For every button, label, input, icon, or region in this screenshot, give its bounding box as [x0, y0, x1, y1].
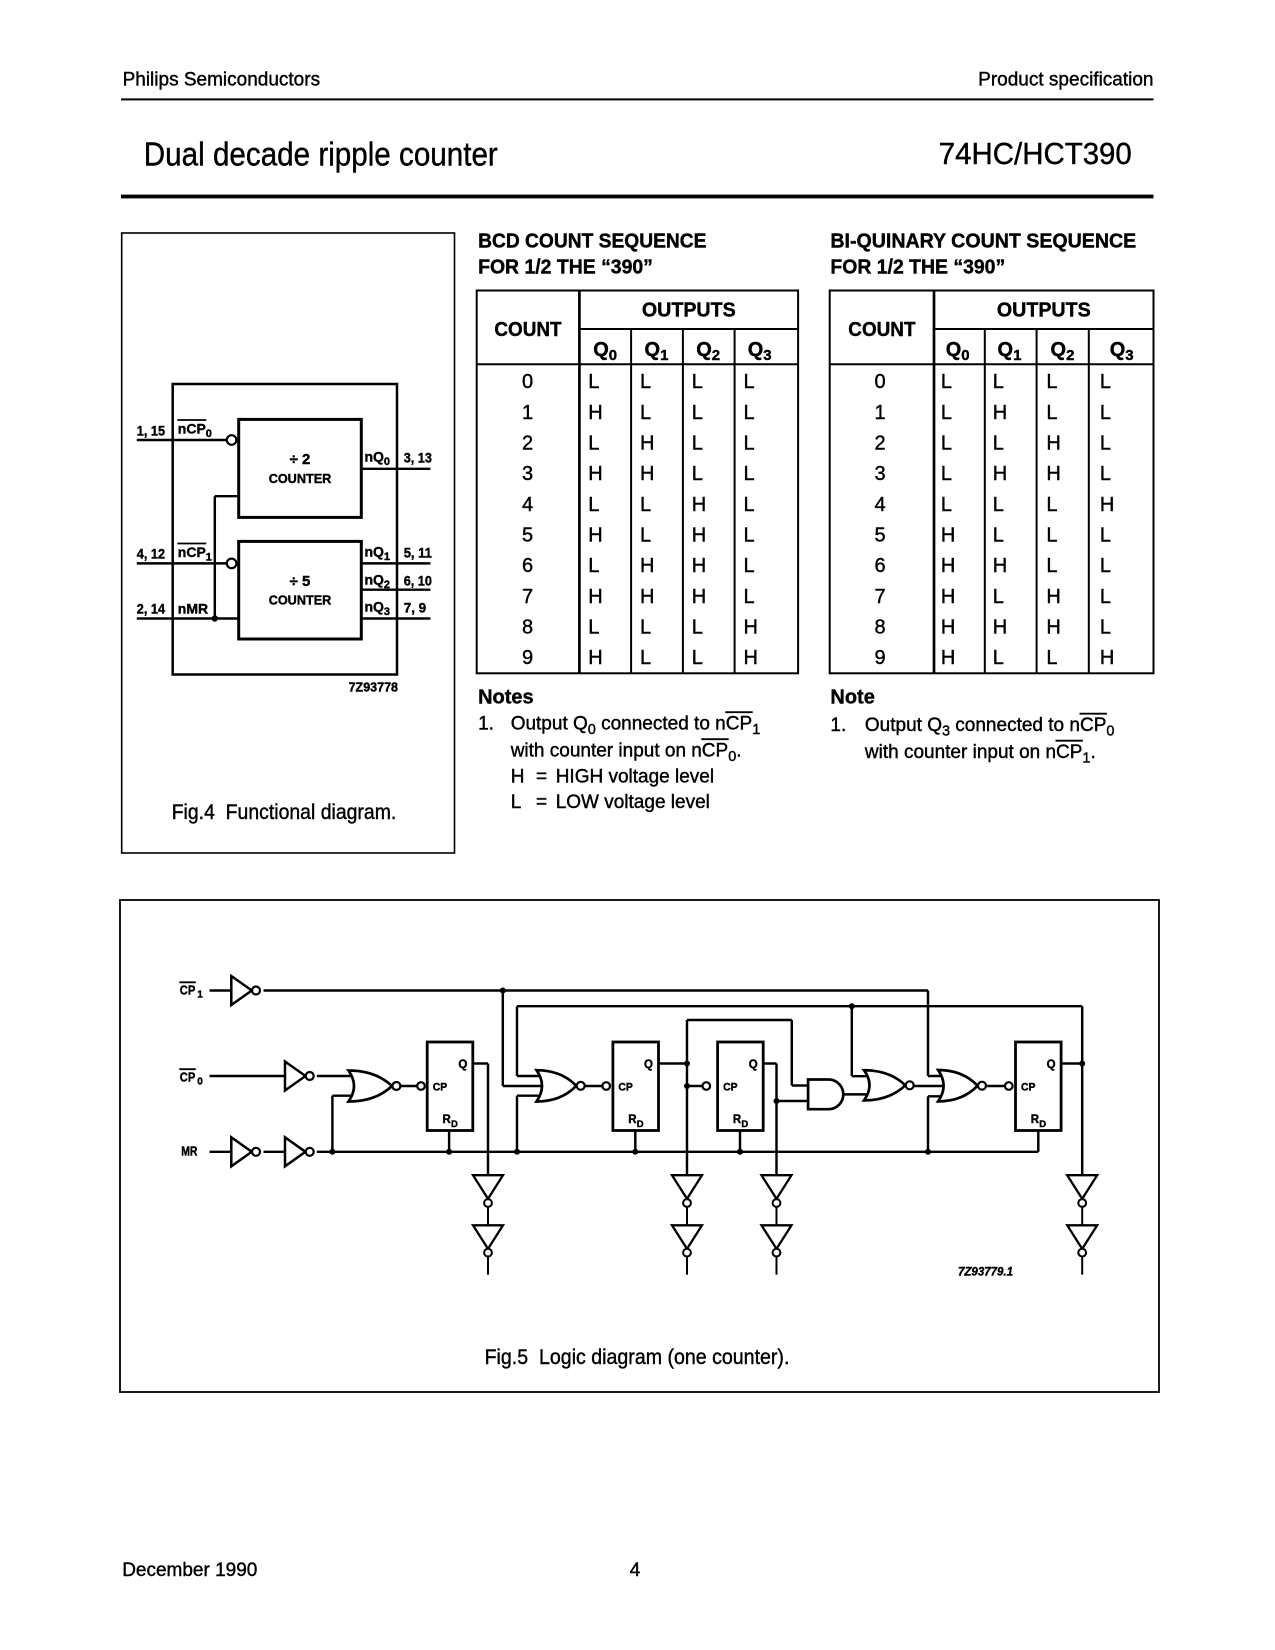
- svg-text:L: L: [993, 525, 1004, 547]
- svg-text:FOR 1/2 THE “390”: FOR 1/2 THE “390”: [830, 257, 1005, 279]
- svg-text:1, 15: 1, 15: [137, 423, 165, 439]
- svg-text:L: L: [941, 433, 952, 455]
- svg-text:H: H: [692, 555, 706, 577]
- svg-text:L: L: [993, 586, 1004, 608]
- svg-text:1: 1: [1013, 347, 1021, 364]
- svg-text:5, 11: 5, 11: [404, 545, 432, 561]
- svg-text:L: L: [588, 555, 599, 577]
- svg-text:1: 1: [660, 347, 668, 364]
- svg-text:L: L: [588, 371, 599, 393]
- svg-text:L: L: [640, 402, 651, 424]
- svg-text:L: L: [511, 792, 522, 813]
- svg-text:H: H: [993, 555, 1007, 577]
- svg-text:.: .: [736, 741, 741, 762]
- svg-text:0: 0: [588, 722, 596, 738]
- svg-text:6: 6: [874, 555, 885, 577]
- svg-text:L: L: [692, 433, 703, 455]
- svg-text:connected to n: connected to n: [955, 715, 1080, 736]
- svg-text:Q: Q: [749, 1059, 758, 1071]
- svg-text:2, 14: 2, 14: [137, 601, 165, 617]
- svg-text:H: H: [1100, 647, 1114, 669]
- svg-text:H: H: [640, 586, 654, 608]
- svg-text:H: H: [588, 463, 602, 485]
- svg-text:L: L: [993, 494, 1004, 516]
- svg-text:4: 4: [522, 494, 533, 516]
- svg-text:Q: Q: [1051, 339, 1067, 361]
- svg-text:BCD COUNT SEQUENCE: BCD COUNT SEQUENCE: [478, 231, 706, 253]
- svg-text:H: H: [640, 463, 654, 485]
- svg-text:CP: CP: [1080, 715, 1106, 736]
- svg-text:L: L: [941, 402, 952, 424]
- svg-text:nCP: nCP: [178, 421, 206, 437]
- svg-text:L: L: [1046, 525, 1057, 547]
- svg-text:5: 5: [522, 525, 533, 547]
- svg-text:connected to n: connected to n: [601, 714, 726, 735]
- svg-text:COUNTER: COUNTER: [269, 593, 332, 608]
- svg-text:H: H: [1046, 463, 1060, 485]
- svg-text:9: 9: [874, 647, 885, 669]
- svg-text:L: L: [640, 371, 651, 393]
- svg-text:D: D: [741, 1119, 748, 1130]
- svg-text:with counter input on n: with counter input on n: [510, 741, 702, 762]
- svg-text:Q: Q: [696, 339, 712, 361]
- svg-text:0: 0: [384, 456, 390, 468]
- svg-text:L: L: [1100, 433, 1111, 455]
- svg-text:3: 3: [763, 347, 771, 364]
- svg-text:L: L: [1100, 616, 1111, 638]
- svg-text:L: L: [588, 494, 599, 516]
- svg-text:2: 2: [522, 433, 533, 455]
- svg-text:CP: CP: [180, 984, 196, 998]
- svg-text:FOR 1/2 THE “390”: FOR 1/2 THE “390”: [478, 257, 653, 279]
- svg-text:L: L: [640, 616, 651, 638]
- svg-text:4: 4: [630, 1560, 641, 1581]
- svg-text:=: =: [536, 792, 547, 813]
- svg-text:H: H: [941, 647, 955, 669]
- svg-text:Dual decade ripple counter: Dual decade ripple counter: [144, 135, 498, 172]
- svg-text:Fig.4 Functional diagram.: Fig.4 Functional diagram.: [172, 801, 397, 824]
- svg-text:HIGH voltage level: HIGH voltage level: [556, 767, 714, 788]
- svg-text:CP: CP: [618, 1082, 633, 1094]
- svg-text:2: 2: [1066, 347, 1074, 364]
- svg-text:L: L: [1046, 555, 1057, 577]
- svg-text:3: 3: [942, 724, 950, 740]
- svg-text:0: 0: [206, 428, 212, 440]
- svg-text:L: L: [744, 494, 755, 516]
- svg-text:Fig.5 Logic diagram (one coun: Fig.5 Logic diagram (one counter).: [485, 1346, 790, 1369]
- svg-text:with counter input on n: with counter input on n: [864, 742, 1056, 763]
- svg-text:Q: Q: [458, 1059, 467, 1071]
- svg-text:L: L: [1100, 402, 1111, 424]
- svg-text:H: H: [1046, 586, 1060, 608]
- svg-text:H: H: [692, 494, 706, 516]
- svg-text:H: H: [993, 463, 1007, 485]
- svg-text:H: H: [588, 525, 602, 547]
- svg-text:L: L: [744, 555, 755, 577]
- svg-text:8: 8: [522, 616, 533, 638]
- svg-text:L: L: [993, 647, 1004, 669]
- svg-text:L: L: [588, 616, 599, 638]
- svg-text:1: 1: [874, 402, 885, 424]
- svg-text:December 1990: December 1990: [122, 1560, 257, 1581]
- svg-text:H: H: [588, 647, 602, 669]
- svg-text:Q: Q: [644, 1059, 653, 1071]
- svg-text:D: D: [451, 1119, 458, 1130]
- svg-text:9: 9: [522, 647, 533, 669]
- svg-text:nQ: nQ: [365, 449, 385, 465]
- svg-text:÷ 5: ÷ 5: [290, 573, 311, 590]
- svg-text:0: 0: [874, 371, 885, 393]
- svg-text:L: L: [1046, 402, 1057, 424]
- svg-text:=: =: [536, 767, 547, 788]
- svg-text:L: L: [1046, 647, 1057, 669]
- svg-text:L: L: [588, 433, 599, 455]
- svg-text:L: L: [744, 463, 755, 485]
- svg-text:2: 2: [384, 579, 390, 591]
- svg-text:74HC/HCT390: 74HC/HCT390: [939, 136, 1132, 171]
- svg-text:3: 3: [522, 463, 533, 485]
- svg-text:.: .: [1091, 742, 1096, 763]
- svg-text:7: 7: [522, 586, 533, 608]
- svg-text:Q: Q: [593, 339, 609, 361]
- svg-text:L: L: [692, 402, 703, 424]
- svg-text:D: D: [637, 1119, 644, 1130]
- svg-text:H: H: [1046, 433, 1060, 455]
- svg-text:Q: Q: [1110, 339, 1126, 361]
- svg-text:Q: Q: [748, 339, 764, 361]
- svg-text:L: L: [640, 525, 651, 547]
- svg-text:H: H: [993, 616, 1007, 638]
- svg-text:L: L: [744, 525, 755, 547]
- svg-text:2: 2: [874, 433, 885, 455]
- svg-text:H: H: [993, 402, 1007, 424]
- svg-text:Notes: Notes: [478, 687, 534, 709]
- svg-text:MR: MR: [181, 1145, 197, 1159]
- svg-text:1.: 1.: [830, 715, 846, 736]
- svg-text:1: 1: [752, 722, 760, 738]
- svg-text:Output Q: Output Q: [511, 714, 588, 735]
- svg-text:CP: CP: [1021, 1082, 1036, 1094]
- svg-text:L: L: [1046, 371, 1057, 393]
- svg-text:H: H: [744, 647, 758, 669]
- svg-text:Q: Q: [645, 339, 661, 361]
- svg-text:0: 0: [728, 749, 736, 765]
- svg-text:H: H: [692, 525, 706, 547]
- svg-text:3: 3: [384, 606, 390, 618]
- svg-text:7Z93779.1: 7Z93779.1: [958, 1267, 1013, 1279]
- svg-text:H: H: [640, 433, 654, 455]
- svg-text:L: L: [1046, 494, 1057, 516]
- svg-text:CP: CP: [702, 741, 728, 762]
- svg-text:1.: 1.: [478, 714, 494, 735]
- svg-text:1: 1: [197, 990, 203, 1001]
- svg-text:CP: CP: [433, 1082, 448, 1094]
- svg-text:7, 9: 7, 9: [404, 600, 427, 616]
- svg-text:L: L: [744, 433, 755, 455]
- svg-text:1: 1: [206, 552, 212, 564]
- svg-text:0: 0: [961, 347, 969, 364]
- svg-text:1: 1: [1082, 751, 1090, 767]
- svg-text:L: L: [1100, 463, 1111, 485]
- svg-text:Q: Q: [946, 339, 962, 361]
- svg-text:H: H: [511, 767, 525, 788]
- svg-text:L: L: [1100, 525, 1111, 547]
- svg-text:COUNT: COUNT: [848, 319, 915, 341]
- svg-text:H: H: [640, 555, 654, 577]
- svg-text:CP: CP: [180, 1071, 196, 1085]
- svg-text:L: L: [1100, 371, 1111, 393]
- svg-text:L: L: [692, 371, 703, 393]
- svg-text:8: 8: [874, 616, 885, 638]
- svg-text:L: L: [640, 647, 651, 669]
- svg-text:L: L: [941, 494, 952, 516]
- svg-text:3: 3: [1125, 347, 1133, 364]
- svg-text:Product specification: Product specification: [978, 69, 1153, 90]
- svg-text:COUNT: COUNT: [494, 319, 561, 341]
- svg-text:4: 4: [874, 494, 885, 516]
- svg-text:0: 0: [522, 371, 533, 393]
- svg-text:OUTPUTS: OUTPUTS: [997, 300, 1091, 322]
- svg-text:Q: Q: [1047, 1059, 1056, 1071]
- svg-text:Philips Semiconductors: Philips Semiconductors: [123, 69, 320, 90]
- svg-text:Q: Q: [998, 339, 1014, 361]
- svg-text:0: 0: [197, 1077, 203, 1088]
- svg-text:Note: Note: [830, 687, 874, 709]
- svg-text:5: 5: [874, 525, 885, 547]
- svg-text:L: L: [941, 371, 952, 393]
- svg-text:BI-QUINARY COUNT SEQUENCE: BI-QUINARY COUNT SEQUENCE: [830, 231, 1136, 253]
- svg-text:nQ: nQ: [365, 572, 385, 588]
- svg-text:nQ: nQ: [365, 599, 385, 615]
- svg-text:L: L: [1100, 586, 1111, 608]
- svg-text:D: D: [1039, 1119, 1046, 1130]
- svg-text:0: 0: [609, 347, 617, 364]
- svg-text:L: L: [993, 433, 1004, 455]
- svg-text:6, 10: 6, 10: [404, 573, 432, 589]
- svg-text:H: H: [941, 525, 955, 547]
- svg-text:H: H: [744, 616, 758, 638]
- svg-text:Output Q: Output Q: [865, 715, 942, 736]
- svg-text:LOW voltage level: LOW voltage level: [556, 792, 710, 813]
- svg-text:OUTPUTS: OUTPUTS: [642, 300, 736, 322]
- svg-text:L: L: [993, 371, 1004, 393]
- svg-text:H: H: [692, 586, 706, 608]
- svg-text:L: L: [744, 402, 755, 424]
- svg-text:0: 0: [1106, 724, 1114, 740]
- svg-text:H: H: [588, 586, 602, 608]
- svg-text:4, 12: 4, 12: [137, 546, 165, 562]
- svg-text:H: H: [1100, 494, 1114, 516]
- svg-text:COUNTER: COUNTER: [269, 471, 332, 486]
- svg-text:L: L: [1100, 555, 1111, 577]
- svg-text:CP: CP: [1056, 742, 1082, 763]
- svg-text:6: 6: [522, 555, 533, 577]
- svg-text:L: L: [941, 463, 952, 485]
- svg-text:H: H: [588, 402, 602, 424]
- svg-text:H: H: [941, 616, 955, 638]
- svg-text:7: 7: [874, 586, 885, 608]
- svg-text:H: H: [1046, 616, 1060, 638]
- svg-text:CP: CP: [726, 714, 752, 735]
- svg-text:nQ: nQ: [365, 544, 385, 560]
- svg-text:1: 1: [522, 402, 533, 424]
- svg-text:3, 13: 3, 13: [404, 450, 432, 466]
- svg-text:H: H: [941, 555, 955, 577]
- svg-text:L: L: [640, 494, 651, 516]
- svg-text:7Z93778: 7Z93778: [349, 681, 398, 695]
- svg-text:3: 3: [874, 463, 885, 485]
- svg-text:2: 2: [712, 347, 720, 364]
- svg-text:1: 1: [384, 551, 390, 563]
- svg-text:L: L: [692, 647, 703, 669]
- svg-text:L: L: [744, 371, 755, 393]
- svg-text:L: L: [692, 463, 703, 485]
- svg-text:nCP: nCP: [178, 544, 206, 560]
- svg-text:H: H: [941, 586, 955, 608]
- svg-text:CP: CP: [723, 1082, 738, 1094]
- svg-text:L: L: [744, 586, 755, 608]
- svg-text:nMR: nMR: [178, 601, 208, 617]
- svg-text:L: L: [692, 616, 703, 638]
- svg-text:÷ 2: ÷ 2: [290, 451, 311, 468]
